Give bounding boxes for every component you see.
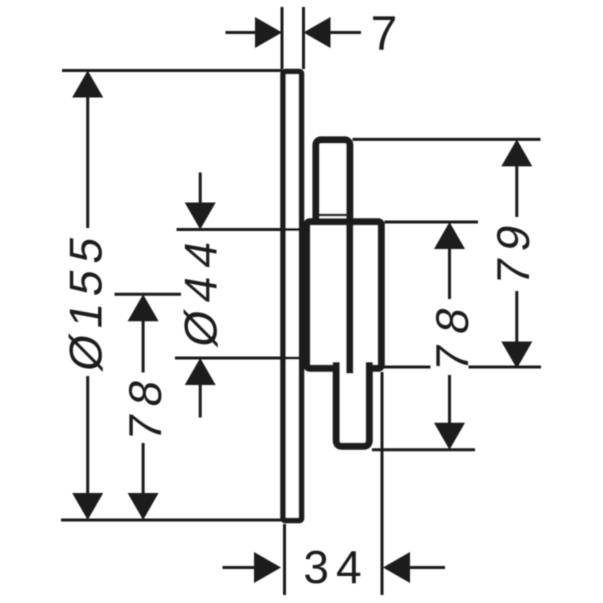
svg-text:7: 7 [371, 8, 398, 61]
svg-text:34: 34 [303, 541, 368, 593]
svg-text:79: 79 [487, 213, 539, 289]
svg-text:Ø44: Ø44 [175, 228, 227, 351]
svg-text:78: 78 [119, 367, 171, 445]
svg-text:Ø155: Ø155 [60, 225, 112, 375]
svg-text:78: 78 [426, 291, 478, 375]
